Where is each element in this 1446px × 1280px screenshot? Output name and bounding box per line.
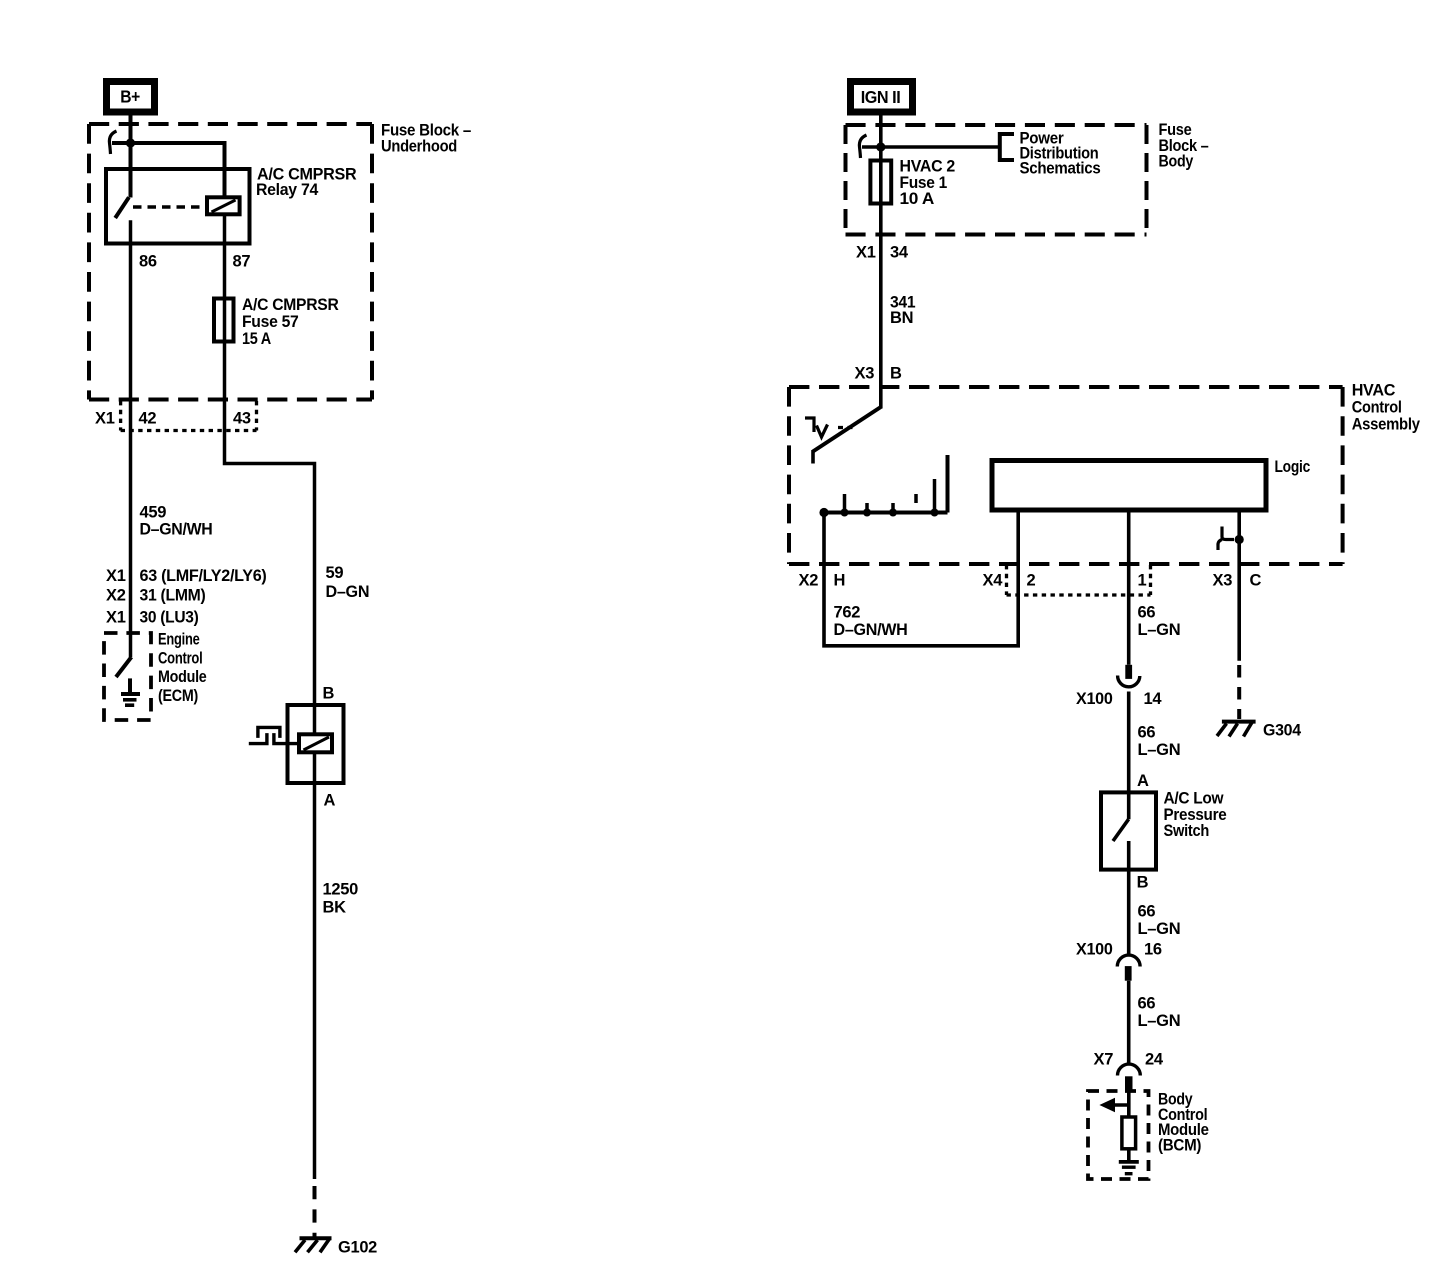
svg-text:Pressure: Pressure bbox=[1164, 806, 1227, 824]
svg-text:G102: G102 bbox=[338, 1238, 377, 1256]
relay 74 switch blade bbox=[115, 197, 129, 218]
label HVAC Control Assembly bbox=[1352, 381, 1421, 433]
logic module box bbox=[992, 461, 1266, 511]
svg-text:D–GN/WH: D–GN/WH bbox=[834, 621, 908, 639]
label A/C Low Pressure Switch bbox=[1164, 790, 1227, 841]
svg-text:2: 2 bbox=[1027, 572, 1036, 590]
svg-text:66: 66 bbox=[1138, 995, 1156, 1013]
relay 74 lower contact stub (pin 86) bbox=[129, 220, 133, 657]
wire 762 from switch H to logic pin 2 bbox=[824, 513, 1018, 646]
svg-text:HVAC: HVAC bbox=[1352, 381, 1396, 399]
svg-text:L–GN: L–GN bbox=[1138, 920, 1181, 938]
svg-text:Switch: Switch bbox=[1164, 822, 1210, 840]
svg-text:D–GN/WH: D–GN/WH bbox=[140, 521, 213, 539]
ground G304 bbox=[1217, 722, 1256, 737]
svg-text:C: C bbox=[1250, 572, 1262, 590]
svg-text:X7: X7 bbox=[1094, 1050, 1114, 1068]
svg-text:X1: X1 bbox=[95, 410, 115, 428]
svg-text:A: A bbox=[1137, 772, 1149, 790]
svg-text:BN: BN bbox=[890, 309, 913, 327]
connector X4 dotted box bbox=[1007, 565, 1151, 595]
wire B+ down into relay bbox=[129, 114, 133, 198]
svg-text:Engine: Engine bbox=[158, 631, 200, 649]
fuse F1 HVAC 2 bbox=[870, 161, 891, 204]
junction dot at IGN II branch bbox=[876, 142, 885, 151]
clutch coil bbox=[299, 734, 332, 752]
terminal hook at IGN II feed bbox=[859, 135, 866, 158]
junction dot at B+ branch bbox=[126, 138, 135, 147]
switch contact bar bbox=[823, 455, 948, 513]
svg-text:L–GN: L–GN bbox=[1138, 621, 1181, 639]
svg-text:31 (LMM): 31 (LMM) bbox=[140, 587, 206, 605]
svg-text:10 A: 10 A bbox=[900, 190, 935, 208]
svg-text:X2: X2 bbox=[106, 587, 126, 605]
terminal hook at X3 C bbox=[1218, 527, 1244, 551]
svg-text:762: 762 bbox=[834, 604, 861, 622]
svg-text:Assembly: Assembly bbox=[1352, 416, 1421, 434]
svg-text:X100: X100 bbox=[1076, 690, 1113, 708]
svg-text:59: 59 bbox=[326, 564, 344, 582]
svg-text:D–GN: D–GN bbox=[326, 583, 370, 601]
ECM internal ground bbox=[121, 678, 140, 705]
svg-text:Relay 74: Relay 74 bbox=[256, 181, 319, 199]
svg-text:Control: Control bbox=[158, 649, 203, 667]
label circuit 66 L-GN (upper) bbox=[1138, 604, 1181, 639]
wire 66 to BCM bbox=[1127, 981, 1131, 1064]
svg-text:1250: 1250 bbox=[323, 881, 359, 899]
A/C compressor clutch box bbox=[288, 705, 344, 783]
pressure switch blade bbox=[1113, 819, 1129, 841]
label circuit 66 L-GN (second) bbox=[1138, 724, 1181, 760]
svg-text:Control: Control bbox=[1352, 399, 1402, 417]
relay K74 box bbox=[106, 169, 250, 244]
svg-text:X1: X1 bbox=[106, 609, 126, 627]
svg-text:30 (LU3): 30 (LU3) bbox=[140, 609, 199, 627]
ECM pin row X1 63 bbox=[106, 567, 267, 585]
switch contact dots and stubs bbox=[819, 479, 938, 517]
label Power Distribution Schematics bbox=[1020, 130, 1101, 178]
svg-text:Module: Module bbox=[158, 668, 207, 686]
svg-text:X1: X1 bbox=[856, 244, 876, 262]
svg-text:X3: X3 bbox=[1213, 572, 1233, 590]
svg-text:66: 66 bbox=[1138, 724, 1156, 742]
BCM signal arrow bbox=[1099, 1098, 1128, 1112]
svg-text:86: 86 bbox=[139, 253, 157, 271]
svg-text:34: 34 bbox=[890, 244, 909, 262]
ECM pin row X1 30 bbox=[106, 609, 199, 627]
svg-text:24: 24 bbox=[1145, 1050, 1164, 1068]
svg-text:16: 16 bbox=[1144, 941, 1162, 959]
svg-text:63 (LMF/LY2/LY6): 63 (LMF/LY2/LY6) bbox=[140, 567, 267, 585]
label circuit 66 L-GN (third) bbox=[1138, 903, 1181, 939]
svg-text:87: 87 bbox=[233, 253, 251, 271]
inline connector X100 pin 14 bbox=[1118, 665, 1140, 687]
BCM dashed box bbox=[1088, 1091, 1149, 1179]
power symbol B+ bbox=[107, 82, 155, 113]
wire IGN II down to HVAC assembly bbox=[879, 114, 883, 409]
svg-text:A/C CMPRSR: A/C CMPRSR bbox=[242, 296, 339, 314]
wire logic pin 1 bbox=[1127, 510, 1131, 665]
label A/C CMPRSR Fuse 57 15 A bbox=[242, 296, 339, 348]
switch detent symbol bbox=[805, 418, 857, 437]
wire to power distribution reference bbox=[862, 145, 1000, 149]
svg-text:15 A: 15 A bbox=[242, 330, 271, 348]
label HVAC 2 Fuse 1 10 A bbox=[900, 158, 956, 209]
svg-text:BK: BK bbox=[323, 899, 347, 917]
wire logic X3 C bbox=[1237, 510, 1241, 661]
power symbol IGN II bbox=[851, 82, 913, 113]
svg-text:459: 459 bbox=[140, 504, 167, 522]
wire resistor to ground bbox=[1127, 1149, 1131, 1160]
reference bracket power distribution bbox=[1000, 134, 1014, 160]
BCM resistor bbox=[1122, 1117, 1136, 1149]
svg-text:Fuse 57: Fuse 57 bbox=[242, 313, 299, 331]
wire inside clutch box bbox=[313, 705, 317, 783]
wire 66 to pressure switch bbox=[1127, 692, 1131, 820]
svg-text:43: 43 bbox=[233, 410, 251, 428]
fuse F57 A/C CMPRSR bbox=[214, 299, 234, 342]
label Engine Control Module (ECM) bbox=[158, 631, 207, 705]
label A/C CMPRSR Relay 74 bbox=[256, 166, 357, 200]
svg-text:A/C Low: A/C Low bbox=[1164, 790, 1224, 808]
relay 74 coil bbox=[207, 197, 240, 214]
BCM chassis ground bbox=[1119, 1162, 1139, 1174]
PWM signal symbol at clutch bbox=[249, 727, 299, 743]
svg-text:H: H bbox=[834, 572, 846, 590]
label Fuse Block - Body bbox=[1159, 121, 1209, 171]
wire clutch A down to G102 bbox=[313, 783, 317, 1237]
svg-text:66: 66 bbox=[1138, 903, 1156, 921]
ECM pin row X2 31 bbox=[106, 587, 206, 605]
HVAC control assembly dashed box bbox=[789, 387, 1343, 564]
svg-text:1: 1 bbox=[1138, 572, 1147, 590]
ECM switch blade bbox=[116, 657, 131, 677]
wire pin 87 from coil to jog bbox=[225, 214, 315, 705]
ECM dashed box bbox=[104, 633, 151, 720]
svg-text:B: B bbox=[890, 365, 902, 383]
ground G102 bbox=[295, 1238, 332, 1252]
svg-text:L–GN: L–GN bbox=[1138, 1012, 1181, 1030]
svg-text:14: 14 bbox=[1144, 690, 1163, 708]
label Body Control Module (BCM) bbox=[1158, 1091, 1209, 1155]
inline connector X7 pin 24 bbox=[1118, 1064, 1141, 1091]
label circuit 66 L-GN (fourth) bbox=[1138, 995, 1181, 1031]
svg-text:A: A bbox=[324, 792, 336, 810]
blower switch wiper bbox=[813, 407, 881, 464]
svg-text:X1: X1 bbox=[106, 567, 126, 585]
svg-text:X100: X100 bbox=[1076, 941, 1113, 959]
terminal hook at B+ feed bbox=[109, 131, 116, 154]
label circuit 59 D-GN bbox=[326, 564, 370, 601]
relay actuation dashed link bbox=[133, 205, 206, 208]
svg-text:X4: X4 bbox=[983, 572, 1004, 590]
wire branch to relay coil (pin 87 side) bbox=[112, 143, 225, 199]
svg-text:X3: X3 bbox=[855, 365, 875, 383]
A/C low pressure switch box bbox=[1101, 792, 1156, 869]
svg-text:Underhood: Underhood bbox=[381, 138, 457, 156]
svg-text:B: B bbox=[323, 685, 335, 703]
svg-text:G304: G304 bbox=[1263, 721, 1302, 739]
svg-text:66: 66 bbox=[1138, 604, 1156, 622]
fuse block body dashed box bbox=[846, 125, 1147, 235]
svg-text:B+: B+ bbox=[120, 87, 140, 107]
svg-text:Schematics: Schematics bbox=[1020, 160, 1101, 178]
svg-text:(ECM): (ECM) bbox=[158, 687, 198, 705]
svg-text:Body: Body bbox=[1159, 153, 1195, 171]
svg-text:(BCM): (BCM) bbox=[1158, 1136, 1201, 1154]
inline connector X100 pin 16 bbox=[1117, 955, 1140, 981]
svg-text:L–GN: L–GN bbox=[1138, 741, 1181, 759]
label circuit 1250 BK bbox=[323, 881, 359, 917]
connector X1 dotted box bbox=[121, 401, 257, 431]
label circuit 459 D-GN/WH bbox=[140, 504, 213, 539]
label Fuse Block - Underhood bbox=[381, 122, 471, 156]
svg-text:X2: X2 bbox=[799, 572, 819, 590]
svg-text:Logic: Logic bbox=[1275, 458, 1311, 476]
fuse block underhood dashed box bbox=[89, 124, 372, 400]
svg-text:HVAC 2: HVAC 2 bbox=[900, 158, 956, 176]
wire into BCM bbox=[1127, 1091, 1131, 1117]
svg-text:IGN II: IGN II bbox=[861, 87, 901, 107]
svg-text:42: 42 bbox=[139, 410, 157, 428]
label circuit 762 D-GN/WH bbox=[834, 604, 908, 639]
svg-text:B: B bbox=[1137, 874, 1149, 892]
wire X3 C dashed to G304 bbox=[1237, 665, 1241, 719]
label circuit 341 BN bbox=[890, 294, 915, 328]
wire from pressure switch lower contact bbox=[1127, 841, 1131, 955]
